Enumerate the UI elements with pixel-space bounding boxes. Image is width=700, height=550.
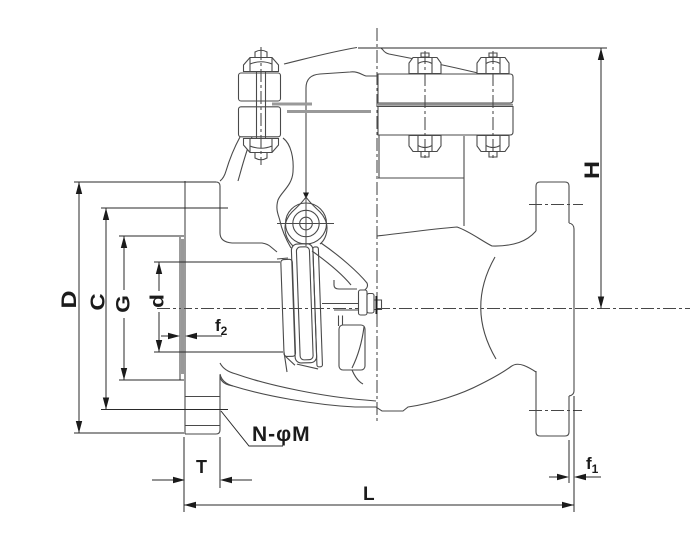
plan bolt left top nut: [409, 58, 441, 74]
dimension d line: [158, 262, 160, 352]
side bolt top nut facets: [250, 58, 272, 72]
G extensions: [119, 236, 184, 380]
hinge circle outer: [286, 203, 327, 244]
body bottom outer profile: [220, 364, 536, 411]
gasket grey left long: [287, 110, 371, 113]
cotter pin: [376, 296, 378, 314]
dimension C line: [105, 208, 107, 410]
left flange back lower: [220, 375, 233, 430]
left flange face: [184, 181, 186, 434]
svg-text:L: L: [363, 484, 375, 505]
right raised face front: [573, 229, 575, 391]
cover outer top left: [284, 48, 357, 65]
arm outer edge: [321, 243, 368, 291]
right bolt circle dash top: [529, 204, 583, 206]
plan bolt right stub top: [489, 53, 497, 57]
T extension right: [219, 437, 221, 488]
arm lower step: [339, 316, 343, 327]
side bolt top nut: [244, 58, 279, 72]
svg-text:T: T: [196, 457, 207, 477]
side bolt flange rect2: [239, 107, 281, 137]
N-phiM leader: [221, 411, 283, 446]
dimension D line: [78, 182, 80, 433]
hinge circle mid: [293, 210, 319, 236]
disc nut: [359, 290, 368, 315]
left flange bottom corner: [216, 430, 220, 434]
side bolt centerline: [260, 47, 262, 165]
G arrows: [121, 236, 127, 380]
right bolt circle dash bottom: [529, 410, 582, 412]
plan bolt left centerline: [424, 51, 426, 160]
body bottom inner (section): [220, 363, 376, 401]
plan bolt right top nut: [477, 58, 509, 74]
svg-text:D: D: [57, 290, 81, 308]
right body shoulder silhouette: [377, 227, 536, 246]
dimension L line: [184, 504, 574, 506]
L extension left: [183, 437, 185, 512]
stud end: [374, 300, 382, 310]
plan bolt right centerline: [492, 51, 494, 160]
side bolt top stub: [255, 50, 267, 58]
hinge crosshair: [277, 196, 334, 246]
bonnet flange rect2 (plan): [378, 107, 513, 136]
right flange face lower: [568, 396, 570, 432]
horizontal main centerline: [157, 308, 690, 310]
side bolt shank: [257, 56, 266, 154]
bonnet flange rect1 (plan): [378, 74, 513, 103]
section boundary below flange: [378, 135, 380, 178]
left flange bottom edge: [185, 433, 216, 435]
plan bolt left bottom nut: [409, 136, 441, 152]
left flange bolt hole bottom: [185, 397, 220, 426]
left raised face front: [179, 237, 181, 380]
plan bolt right bottom nut: [477, 136, 509, 152]
left bolt circle line bottom: [101, 409, 228, 411]
side bolt flange rect1: [239, 73, 281, 101]
dimension G line: [123, 236, 125, 380]
f1 arrows: [557, 474, 586, 480]
right flange face upper: [568, 186, 570, 223]
plan bolt left stub top: [421, 53, 429, 57]
plan bolt left stub bottom: [421, 152, 429, 158]
right raised face step bottom: [569, 391, 574, 396]
cover skirt left: [220, 137, 240, 181]
svg-text:N-φM: N-φM: [252, 423, 311, 446]
disc washer: [367, 294, 374, 314]
hinge boss apex: [303, 193, 309, 200]
left raised face grey: [181, 239, 184, 374]
hinge circle inner: [300, 217, 313, 230]
bonnet neck vertical right: [463, 136, 465, 226]
arm inner edge: [312, 251, 351, 285]
arm tip: [352, 370, 363, 384]
left flange back upper: [220, 186, 232, 243]
plan bolt right stub bottom: [489, 152, 497, 158]
T arrows: [173, 477, 232, 483]
gasket grey stub left: [272, 103, 312, 106]
d arrows: [156, 262, 162, 352]
cover inner line (section): [306, 72, 377, 198]
vertical main centerline: [376, 28, 378, 422]
right flange back upper: [535, 186, 537, 231]
bonnet shoulder line: [378, 177, 464, 179]
bore bottom line / d bottom extension: [154, 351, 283, 353]
H top extension: [358, 47, 607, 49]
joint gasket grey right: [378, 104, 513, 106]
side bolt bottom nut facets: [250, 139, 272, 153]
right raised face step top: [569, 223, 574, 229]
arm fork step: [334, 280, 357, 289]
side bolt bottom stub: [255, 153, 267, 160]
bore top line / d top extension: [154, 261, 280, 263]
L arrows: [184, 502, 574, 508]
dimension T: [152, 479, 252, 481]
dimension H line: [600, 48, 602, 309]
hinge boss: [285, 197, 327, 246]
right flange bottom corner: [536, 432, 569, 436]
seat top line: [277, 258, 288, 259]
svg-text:d: d: [147, 294, 168, 308]
C arrows: [103, 208, 109, 410]
dimension f1: [549, 476, 601, 478]
H arrows: [598, 48, 604, 309]
arm taper line: [352, 327, 364, 368]
left flange top corner: [216, 182, 220, 186]
arm lower boss: [339, 325, 365, 370]
dimension f2: [161, 335, 222, 337]
body neck top line (section): [232, 243, 277, 252]
L extension right: [573, 396, 575, 512]
svg-text:C: C: [86, 293, 109, 310]
disc stud lines: [322, 304, 359, 311]
D arrows: [76, 182, 82, 433]
dome inner wall S-curve (section): [277, 138, 293, 248]
svg-text:G: G: [113, 295, 134, 313]
left bolt circle line top: [101, 207, 228, 209]
disc stack: [280, 243, 322, 370]
svg-text:H: H: [580, 161, 604, 179]
dome outer left: [238, 137, 252, 181]
f2 arrows: [168, 333, 197, 339]
seat bottom connector: [284, 352, 287, 372]
right flange back lower: [535, 371, 537, 432]
f1 extension: [568, 440, 570, 483]
cover top right slope: [381, 48, 490, 75]
right flange top corner: [536, 182, 569, 186]
sphere-neck crescent: [481, 257, 496, 359]
side bolt bottom nut: [244, 139, 279, 153]
left flange top edge / D top extension: [74, 181, 216, 183]
D bottom extension: [74, 432, 184, 434]
